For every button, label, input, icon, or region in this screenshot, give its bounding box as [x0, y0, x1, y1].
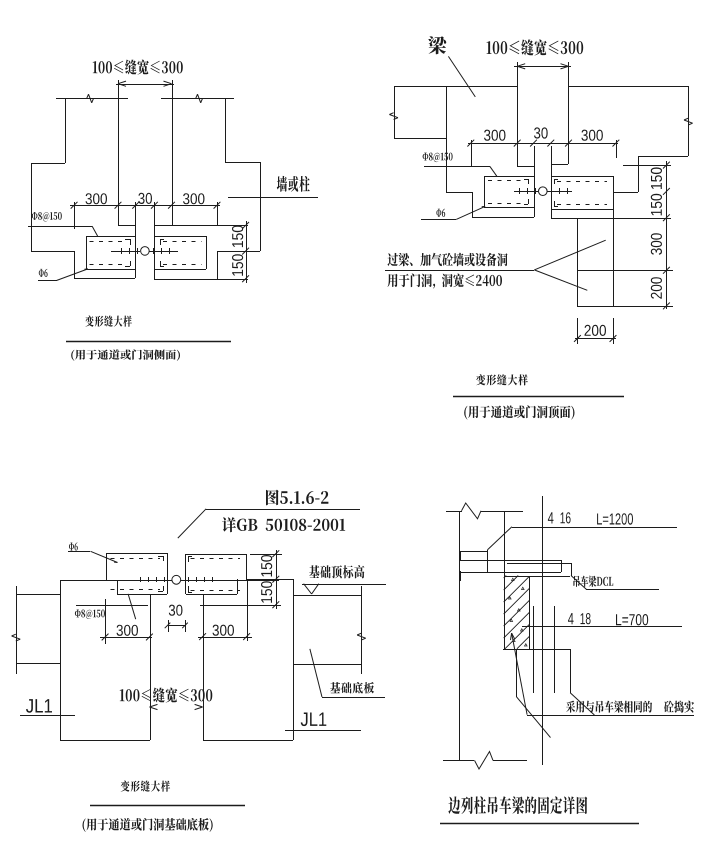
D3 centre line through joint with ribs — [60, 580, 172, 582]
D1 mid dim extension lines — [74, 202, 76, 229]
D2 bottom 200 dim — [575, 338, 616, 340]
D1 left wall step-in bottom — [31, 251, 74, 253]
D2 beam top cut line left — [394, 86, 517, 88]
D4 bent anchor bar 4phi16 — [512, 527, 677, 529]
D3 right JL1 beam outline — [246, 579, 293, 581]
D2 right wall step — [613, 192, 638, 194]
D4 bottom cut line with break — [443, 760, 474, 762]
D2 mid dim extension lines — [471, 140, 473, 167]
D2 subtitle text — [464, 405, 574, 419]
D3 title underline — [90, 805, 245, 807]
D4 beam web right edge — [570, 649, 572, 693]
D3 right thin slab — [293, 595, 361, 597]
D2 right wall edge / lower wall right edge — [613, 176, 615, 306]
D1 left wall step — [31, 163, 65, 165]
D1 right joint notch and extension to 150-dim — [154, 225, 248, 227]
D1 mid dim line 300/30/300 — [70, 205, 220, 207]
D3 30 dim with end bars — [169, 605, 183, 616]
D1 left beam top rebar dashed — [90, 241, 127, 243]
D1 right vertical dim line 150/150 — [246, 221, 248, 283]
D1 left beam bottom rebar dashed — [90, 264, 127, 266]
D3 elevation marker — [302, 584, 386, 586]
D1 right wall outer edge lower — [260, 162, 262, 251]
D3 label phi8@150 with leader — [75, 610, 105, 620]
D4 concrete aggregate marks — [512, 578, 515, 580]
D3 right box bottom rebar dashed — [191, 590, 241, 592]
D3 joint width arrows — [150, 704, 158, 707]
D1 top dim text — [93, 60, 183, 75]
D3 left box bottom rebar dashed — [111, 589, 161, 591]
D4 beam left end caps — [460, 551, 462, 561]
D3 right cut edge with break — [361, 586, 363, 674]
D3 left beam box outline — [106, 553, 167, 555]
D2 right top step — [638, 156, 688, 158]
D2 right joint notch — [551, 164, 568, 166]
D2 left joint edge upper — [517, 62, 519, 166]
D4 text 4 phi16 — [548, 512, 554, 523]
D3 subtitle text — [83, 818, 213, 832]
D1 waterstop circle — [141, 247, 150, 256]
D2 right vertical dim line 150/150/300/200 — [666, 161, 668, 309]
D4 lower column right edge — [516, 649, 518, 697]
D3 right 300 dim — [198, 637, 252, 639]
D2 left wall step — [446, 192, 472, 194]
D3 ref text GB — [222, 517, 345, 532]
D2 right beam box outline — [551, 176, 613, 178]
D2 title text — [476, 374, 528, 385]
D4 label crane beam DCL — [573, 576, 613, 587]
D3 label foundation-top-level — [309, 565, 364, 578]
D3 right box top rebar dashed — [191, 558, 241, 560]
D4 corbel hatched block outline — [504, 576, 506, 649]
D2 right box top rebar dashed — [557, 181, 607, 183]
D2 beam soffit left — [394, 138, 446, 140]
D4 beam web diagonal — [570, 693, 594, 715]
D2 top dim line with arrows — [514, 66, 571, 68]
D1 right joint edge lower — [154, 225, 156, 279]
D4 note text — [566, 701, 652, 713]
D2 right joint edge lower — [551, 164, 553, 218]
D1 title text — [85, 316, 132, 327]
D1 right wall step-in bottom — [217, 251, 260, 253]
D2 lower wall bottom with extension — [577, 306, 673, 308]
D4 title underline — [440, 823, 639, 825]
D2 left wall lower edge — [472, 192, 474, 217]
D4 title text — [448, 796, 587, 814]
D3 left 300 dim — [100, 637, 152, 639]
D2 right joint edge upper — [568, 62, 570, 164]
D3 left thin slab — [16, 594, 60, 596]
D1 right wall outer edge upper — [225, 98, 227, 162]
D2 left box top rebar dashed — [488, 180, 525, 182]
D1 left wall outer edge upper — [65, 98, 67, 163]
D1 label wall-or-column with leader — [277, 176, 310, 192]
D2 waterstop centre line with ribs — [514, 191, 538, 193]
D2 interior beam edge — [446, 86, 448, 192]
D1 label phi6 with leader — [39, 269, 48, 277]
D3 150 dim extensions — [250, 554, 282, 556]
D4 beam band line B — [507, 563, 571, 565]
D1 wall top cut line right with break — [161, 98, 234, 100]
D2 title underline — [453, 396, 624, 398]
D3 waterstop circle — [172, 575, 181, 584]
D1 right wall bottom edge with extension — [154, 279, 248, 281]
D1 right wall lower edge — [217, 251, 219, 279]
D1 left wall outer edge lower — [31, 163, 33, 251]
D1 right joint edge upper — [172, 80, 174, 225]
D3 left box top rebar dashed — [111, 558, 161, 560]
D4 corbel bottom edge — [503, 649, 570, 651]
D1 title underline — [66, 341, 231, 343]
D4 anchor bars 4phi18 — [533, 606, 535, 693]
D2 right bottom edge with extension — [551, 218, 671, 220]
D3 ref underline with leader — [206, 509, 360, 511]
D4 column left edge — [459, 511, 461, 760]
D2 right wall upper edge — [638, 156, 640, 192]
D2 label beam with leader — [428, 36, 446, 54]
D1 mid dim texts — [86, 193, 108, 204]
D1 right beam box outline — [154, 236, 206, 238]
D4 lower column chamfer — [517, 697, 551, 738]
D1 subtitle text — [71, 349, 180, 361]
D3 150 texts rotated — [261, 555, 272, 577]
D2 mid dim texts — [484, 130, 506, 141]
D3 foundation-slab leader — [322, 697, 385, 699]
D1 left joint notch — [118, 225, 135, 227]
D1 right beam bottom rebar dashed — [163, 264, 202, 266]
D4 crane rail centre line — [542, 496, 544, 765]
D4 note leader with arrow — [527, 715, 694, 717]
D1 right wall step — [225, 162, 260, 164]
D4 beam band line A — [460, 560, 561, 562]
D1 waterstop centre line with ribs — [111, 251, 140, 253]
D4 beam right end caps — [561, 560, 563, 572]
D1 right beam top rebar dashed — [163, 241, 202, 243]
D1 top dim line 100-300 with arrows — [116, 84, 174, 86]
D1 150 texts rotated — [232, 226, 243, 248]
D1 left beam box outline — [86, 236, 135, 238]
D2 note underline with pointers — [385, 270, 534, 272]
D3 ref text fig — [266, 490, 328, 506]
D2 150 texts rotated — [651, 167, 662, 189]
D2 label phi8@150 with leader — [423, 153, 453, 163]
D2 far-right edge with break — [688, 86, 690, 156]
D4 beam band line D — [504, 576, 570, 578]
D3 joint width text — [120, 688, 213, 703]
D2 left bottom edge — [472, 217, 534, 219]
D3 left JL1 beam outline — [60, 580, 62, 740]
D4 crane beam DCL leader — [571, 576, 586, 590]
D3 title text — [121, 781, 171, 792]
D4 beam left plate line — [460, 551, 488, 553]
D3 label foundation-slab — [330, 682, 374, 694]
D2 note text line1 — [388, 253, 508, 266]
D3 label JL1 right with leader — [301, 713, 327, 727]
D4 corbel hatching — [504, 576, 507, 579]
D2 waterstop circle — [539, 187, 548, 196]
D2 top dim text — [487, 39, 584, 55]
D2 lower wall divider with extension — [577, 270, 673, 272]
D1 wall top cut line left with break — [56, 98, 128, 100]
D3 left cut edge with break — [16, 586, 18, 674]
D2 label phi6 with leader — [436, 209, 445, 217]
D1 left wall bottom edge — [74, 278, 135, 280]
D1 left joint edge lower — [135, 225, 137, 278]
D1 label phi8@150 with leader — [32, 212, 62, 222]
D3 right vertical dim 150/150 — [276, 550, 278, 609]
D1 left joint edge upper — [118, 80, 120, 225]
D3 label JL1 left with leader — [26, 699, 52, 713]
D4 column right edge upper — [504, 511, 506, 576]
D2 beam top cut line right — [568, 86, 688, 88]
D2 left joint notch — [517, 166, 534, 168]
D3 label phi6 with leader — [69, 543, 78, 551]
D2 lower wall left edge — [577, 218, 579, 306]
D2 note text line2 — [388, 274, 503, 289]
D2 left joint edge lower — [534, 166, 536, 217]
D2 mid dim line 300/30/300 — [468, 143, 618, 145]
D4 text 4 phi18 with leader — [568, 613, 574, 624]
D2 right box bottom rebar dashed — [557, 204, 607, 206]
D4 beam band line C — [460, 572, 561, 574]
D2 far-left edge with break — [394, 86, 396, 138]
D1 left wall lower edge — [74, 251, 76, 278]
D4 top cut line with break — [446, 511, 462, 513]
D2 left box bottom rebar dashed — [488, 203, 525, 205]
D2 first 150 extension — [623, 165, 671, 167]
D3 right beam box outline — [185, 554, 246, 556]
D2 left beam box outline — [484, 176, 534, 178]
